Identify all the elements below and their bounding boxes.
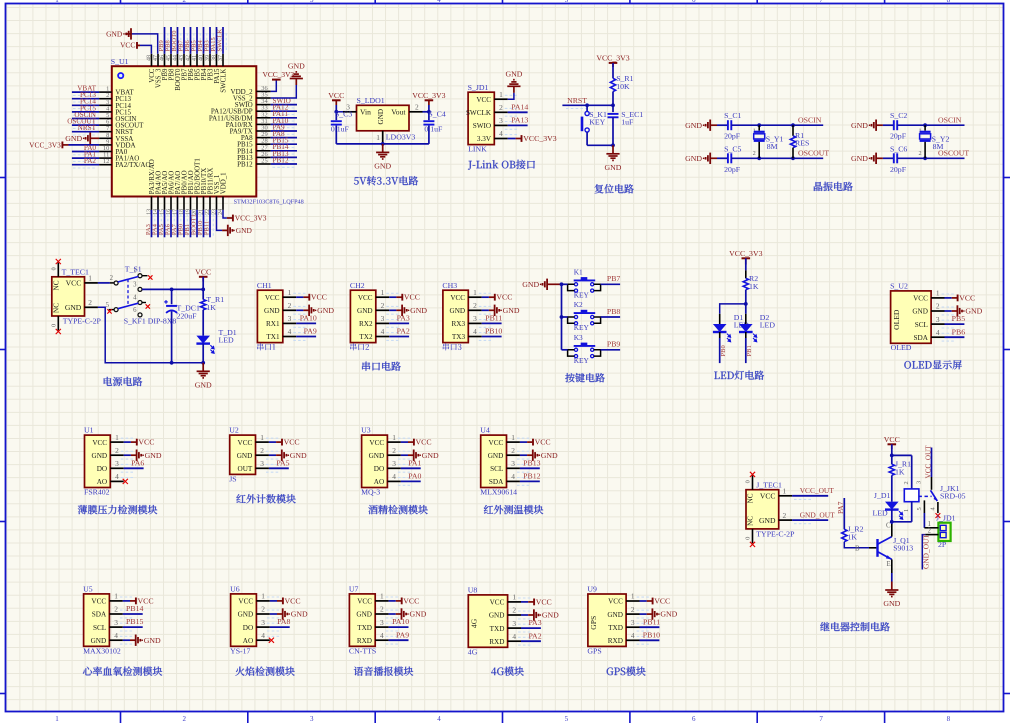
capacitor S_C5 20pF xyxy=(717,157,728,159)
svg-text:0: 0 xyxy=(51,324,58,327)
svg-text:4: 4 xyxy=(115,472,119,481)
svg-text:U4: U4 xyxy=(480,426,490,435)
svg-text:TX3: TX3 xyxy=(452,333,466,341)
wire Vout to VCC_3V3 and C4 xyxy=(423,111,429,113)
svg-text:LINK: LINK xyxy=(468,144,487,153)
svg-text:1: 1 xyxy=(55,0,59,4)
svg-text:OUT: OUT xyxy=(238,465,253,473)
wire below D2 + net PB1 xyxy=(745,332,747,338)
wire S_JD1 pin4 to VCC_3V3 xyxy=(508,138,516,140)
svg-text:VCC_3V3: VCC_3V3 xyxy=(235,214,267,223)
svg-text:U6: U6 xyxy=(230,585,240,594)
connector J_TEC1 body xyxy=(746,490,779,529)
svg-text:PB0: PB0 xyxy=(720,345,727,356)
svg-text:4: 4 xyxy=(114,631,118,640)
wire + net PB11 xyxy=(209,210,211,237)
svg-text:FSR402: FSR402 xyxy=(84,488,110,497)
wire + net PA12 xyxy=(271,110,297,112)
wire + net PA4 xyxy=(157,210,159,237)
svg-text:TX2: TX2 xyxy=(359,333,373,341)
designator 串口2 xyxy=(350,343,356,350)
wire + net PB14 xyxy=(271,150,297,152)
wire + net PA0 at U3 pin 4 xyxy=(401,480,421,482)
svg-text:VCC: VCC xyxy=(654,597,670,606)
svg-text:VCC: VCC xyxy=(369,439,384,447)
wire + net SWIO xyxy=(271,104,297,106)
svg-text:PA3: PA3 xyxy=(528,618,541,627)
svg-text:2: 2 xyxy=(512,606,516,615)
svg-text:PA10: PA10 xyxy=(392,617,409,626)
wire K1 to bus xyxy=(562,283,568,285)
wire + net VCC_OUT xyxy=(792,495,828,497)
power GND at U9 pin 2 xyxy=(640,613,647,615)
svg-text:4: 4 xyxy=(437,0,441,4)
svg-text:1: 1 xyxy=(88,274,92,283)
power VCC_3V3 at S_JD1 pin4 xyxy=(516,138,522,140)
svg-text:3: 3 xyxy=(114,618,118,627)
svg-text:VCC: VCC xyxy=(884,435,900,444)
svg-text:1: 1 xyxy=(392,433,396,442)
U8 body xyxy=(468,595,507,647)
wire LED to bottom rail xyxy=(202,344,204,363)
power GND below Q1 xyxy=(891,582,893,591)
svg-text:VCC: VCC xyxy=(138,438,154,447)
wire VCC node xyxy=(891,444,893,455)
svg-text:20pF: 20pF xyxy=(890,165,907,174)
svg-text:AO: AO xyxy=(374,478,384,486)
power VCC at U5 pin 1 xyxy=(123,600,130,602)
wire + net BOOT1 xyxy=(196,210,198,237)
power VCC at U9 pin 1 xyxy=(640,600,647,602)
svg-text:VCC_3V3: VCC_3V3 xyxy=(729,249,762,258)
svg-text:VCC: VCC xyxy=(311,293,327,302)
wire + net PB15 xyxy=(271,143,297,145)
svg-text:Vout: Vout xyxy=(391,108,406,117)
svg-text:0: 0 xyxy=(51,267,58,270)
svg-text:1: 1 xyxy=(381,288,385,297)
wire K3 to net PB9 xyxy=(601,349,621,351)
power GND at U5 pin 4 xyxy=(123,639,130,641)
svg-text:43: 43 xyxy=(179,55,185,61)
switch T_S1 poles xyxy=(110,282,114,284)
svg-text:PA2: PA2 xyxy=(397,327,410,336)
svg-text:5: 5 xyxy=(106,302,110,309)
svg-text:B: B xyxy=(855,545,860,552)
wire + net PB13 xyxy=(271,156,297,158)
svg-text:VCC: VCC xyxy=(195,267,211,276)
wire down to D2 xyxy=(745,304,747,314)
wire + net PA8 xyxy=(271,137,297,139)
svg-text:2: 2 xyxy=(261,605,265,614)
capacitor S_C3 0.1uF xyxy=(331,120,342,122)
svg-text:PB6: PB6 xyxy=(952,327,966,336)
svg-text:VCC: VCC xyxy=(536,597,552,606)
svg-text:1: 1 xyxy=(376,133,380,142)
svg-text:0: 0 xyxy=(745,537,752,540)
S_U2 body xyxy=(891,291,932,343)
power GND above S_JD1 xyxy=(513,86,515,93)
svg-text:VCC: VCC xyxy=(285,596,301,605)
power VCC above C3 xyxy=(332,99,341,101)
power VCC top-left of U1 xyxy=(137,44,140,46)
J_JD1 pin 2 xyxy=(925,534,938,536)
wire TEC1 VCC to switch xyxy=(98,282,110,284)
svg-text:S_C3: S_C3 xyxy=(335,110,352,119)
svg-text:J_TEC1: J_TEC1 xyxy=(756,481,782,490)
svg-text:GND: GND xyxy=(377,109,385,125)
T_S1 lever arms xyxy=(118,277,139,283)
caption serial circuit xyxy=(362,362,370,371)
power VCC at U4 pin 1 xyxy=(520,441,527,443)
transistor J_Q1 S9013 xyxy=(869,547,876,549)
svg-text:PB12: PB12 xyxy=(237,161,253,169)
no-connect marks on T_S1 xyxy=(142,275,148,277)
svg-text:CH1: CH1 xyxy=(257,281,272,290)
svg-text:S_U1: S_U1 xyxy=(111,57,129,66)
svg-text:GND: GND xyxy=(851,121,868,130)
svg-text:2: 2 xyxy=(782,511,786,520)
svg-text:1: 1 xyxy=(380,592,384,601)
CH3 body xyxy=(443,290,468,342)
svg-text:GND: GND xyxy=(422,451,439,460)
svg-text:4: 4 xyxy=(381,327,385,336)
svg-text:S_C2: S_C2 xyxy=(890,111,907,120)
svg-text:SWIO: SWIO xyxy=(473,122,491,130)
branch wire to D1 xyxy=(720,304,746,314)
svg-text:3: 3 xyxy=(473,314,477,323)
svg-text:MQ-3: MQ-3 xyxy=(361,488,380,497)
wire + net PB12 at U4 pin 4 xyxy=(520,480,540,482)
svg-text:4: 4 xyxy=(631,631,635,640)
svg-text:S_KF1 DIP-8X8: S_KF1 DIP-8X8 xyxy=(124,317,177,326)
U1 body xyxy=(85,435,111,487)
svg-text:GND: GND xyxy=(238,611,254,619)
svg-text:3.3V: 3.3V xyxy=(477,135,492,143)
relay J_JK1 coil box xyxy=(904,489,919,502)
resistor J_R1 1K xyxy=(889,464,894,475)
wire + net PB6 at S_U2 pin 4 xyxy=(945,336,965,338)
wire J_D1 to collector node xyxy=(891,510,893,522)
svg-text:U5: U5 xyxy=(83,585,93,594)
svg-text:GPS: GPS xyxy=(587,647,601,656)
svg-text:5: 5 xyxy=(565,0,569,4)
svg-text:VCC: VCC xyxy=(357,598,372,606)
svg-text:PB10: PB10 xyxy=(485,327,502,336)
wire + net SWCLK xyxy=(222,27,224,54)
svg-text:GND: GND xyxy=(883,599,900,608)
svg-text:SWCLK: SWCLK xyxy=(217,28,224,51)
resistor T_R1 1K xyxy=(201,300,206,310)
wire K1 to net PB7 xyxy=(601,283,621,285)
svg-text:MAX30102: MAX30102 xyxy=(83,647,121,656)
resistor S_R1 10K xyxy=(610,78,615,91)
svg-text:2: 2 xyxy=(114,605,118,614)
svg-text:3: 3 xyxy=(310,0,314,4)
wire + net PA2 xyxy=(72,164,99,166)
svg-text:2: 2 xyxy=(88,298,92,307)
svg-text:GND: GND xyxy=(607,611,623,619)
svg-text:GND: GND xyxy=(489,612,505,620)
wire VSS_1 to GND xyxy=(217,210,223,231)
wire + net PB11 at U9 pin 3 xyxy=(640,626,660,628)
wire J_R1 to LED J_D1 xyxy=(891,475,893,501)
svg-text:7: 7 xyxy=(819,0,823,4)
svg-text:45: 45 xyxy=(166,55,172,61)
svg-text:PA2/TX/AO: PA2/TX/AO xyxy=(115,161,150,169)
svg-text:1: 1 xyxy=(288,288,292,297)
svg-text:4: 4 xyxy=(437,715,441,723)
svg-text:LED: LED xyxy=(219,335,235,344)
wire C4 to bottom rail xyxy=(428,126,430,144)
J_JD1 pin 1 xyxy=(924,527,938,529)
svg-text:SDA: SDA xyxy=(92,611,107,619)
svg-text:1: 1 xyxy=(260,433,264,442)
svg-text:2: 2 xyxy=(919,150,922,157)
svg-text:LED: LED xyxy=(760,321,776,330)
power VCC at U2 pin 1 xyxy=(269,441,276,443)
wire + net OSCOUT xyxy=(72,124,99,126)
resistor R2 1K xyxy=(743,278,748,289)
svg-text:AO: AO xyxy=(243,637,253,645)
relay coil wire down xyxy=(911,455,913,489)
power GND at U7 pin 2 xyxy=(389,613,396,615)
relay dashed link xyxy=(919,495,932,497)
wire + net PB3 xyxy=(209,27,211,54)
power GND at U1 pin 8 xyxy=(90,137,99,139)
svg-text:Vin: Vin xyxy=(360,108,371,117)
svg-text:OSCIN: OSCIN xyxy=(938,116,962,125)
svg-text:E: E xyxy=(887,561,891,568)
caption GPS module xyxy=(607,668,614,676)
svg-text:6: 6 xyxy=(692,0,696,4)
wire + net PA8 at U6 pin 3 xyxy=(270,626,290,628)
svg-text:NC: NC xyxy=(747,493,755,503)
wire + net PB5 at S_U2 pin 3 xyxy=(945,323,965,325)
wire + net PB14 at U5 pin 2 xyxy=(123,613,143,615)
power GND bottom of power circuit xyxy=(202,363,204,372)
svg-text:VCC: VCC xyxy=(490,599,505,607)
wire + net PB10 at CH3 pin 4 xyxy=(482,336,502,338)
svg-text:10K: 10K xyxy=(616,82,630,91)
svg-text:GND: GND xyxy=(237,452,253,460)
svg-text:GND: GND xyxy=(106,30,123,39)
wire K2 to net PB8 xyxy=(601,316,621,318)
wire below D1 + net PB0 xyxy=(719,332,721,338)
svg-text:PA6: PA6 xyxy=(131,458,144,467)
J_TEC1 top NC stub xyxy=(752,476,754,490)
resistor R1 RES between OSCIN/OSCOUT xyxy=(791,123,795,127)
svg-text:41: 41 xyxy=(192,55,198,61)
svg-text:PB12: PB12 xyxy=(523,472,540,481)
svg-text:YS-17: YS-17 xyxy=(230,647,250,656)
svg-text:3: 3 xyxy=(381,314,385,323)
svg-text:VCC: VCC xyxy=(238,439,253,447)
CH1 body xyxy=(257,290,282,342)
svg-text:GND: GND xyxy=(542,611,559,620)
svg-text:TYPE-C-2P: TYPE-C-2P xyxy=(756,529,795,538)
svg-text:PA10: PA10 xyxy=(300,314,317,323)
power VCC_3V3 top of reset circuit xyxy=(609,62,618,64)
svg-text:J_JD1: J_JD1 xyxy=(936,514,956,523)
svg-text:S_JD1: S_JD1 xyxy=(468,83,489,92)
svg-text:GND: GND xyxy=(759,516,776,525)
power GND below U1 xyxy=(222,229,228,231)
wire T_DC1 to bottom rail xyxy=(171,311,173,362)
svg-text:VCC: VCC xyxy=(416,438,432,447)
svg-text:7: 7 xyxy=(819,715,823,723)
svg-text:VCC: VCC xyxy=(358,294,373,302)
svg-text:S_U2: S_U2 xyxy=(890,282,908,291)
svg-text:SRD-05: SRD-05 xyxy=(940,491,966,500)
svg-text:NC: NC xyxy=(53,303,61,313)
svg-text:1: 1 xyxy=(782,487,786,496)
caption relay control circuit xyxy=(820,622,829,631)
power VCC at U6 pin 1 xyxy=(270,600,277,602)
svg-text:2: 2 xyxy=(380,605,384,614)
wire down to C3 xyxy=(335,112,337,120)
caption J-Link OB xyxy=(468,161,472,170)
wire + net BOOT0 xyxy=(177,27,179,54)
svg-text:2: 2 xyxy=(903,481,910,484)
svg-text:C: C xyxy=(886,523,891,530)
switch T_S1 contacts xyxy=(138,274,142,278)
wire + net PA14 at S_JD1 pin 2 xyxy=(508,111,528,113)
svg-text:GND: GND xyxy=(660,610,677,619)
LDO S_LDO1 body xyxy=(357,105,410,131)
caption film pressure module xyxy=(78,505,87,514)
wire + net PB0 xyxy=(183,210,185,237)
wire K3 to bus xyxy=(562,349,568,351)
svg-text:S_C6: S_C6 xyxy=(890,144,907,153)
svg-text:GND: GND xyxy=(65,134,82,143)
svg-text:3: 3 xyxy=(260,459,264,468)
svg-text:2: 2 xyxy=(631,605,635,614)
svg-text:3: 3 xyxy=(380,618,384,627)
svg-text:VCC: VCC xyxy=(959,293,975,302)
wire S_R1 to node xyxy=(612,92,614,106)
key bus vertical wire xyxy=(561,284,563,350)
svg-text:VCC: VCC xyxy=(489,439,504,447)
wire T_R1 to LED xyxy=(202,310,204,336)
svg-text:PA2: PA2 xyxy=(528,631,541,640)
svg-text:PA9: PA9 xyxy=(304,327,317,336)
svg-text:1: 1 xyxy=(55,715,59,723)
wire + net GND_OUT xyxy=(792,519,828,521)
svg-text:GND: GND xyxy=(357,307,373,315)
wire Vin to VCC and C3 xyxy=(336,111,343,113)
svg-text:8M: 8M xyxy=(767,142,778,151)
wire + net PB12 xyxy=(271,163,297,165)
svg-text:KEY: KEY xyxy=(574,323,590,332)
designator 串口3 xyxy=(443,343,449,350)
svg-text:4: 4 xyxy=(392,472,396,481)
svg-text:GND: GND xyxy=(965,307,982,316)
svg-text:VCC_3V3: VCC_3V3 xyxy=(412,91,445,100)
crystal Y2 8M xyxy=(924,125,926,130)
svg-text:VCC: VCC xyxy=(404,293,420,302)
caption reset circuit xyxy=(595,184,604,193)
power VCC_3V3 above U1 right xyxy=(272,79,281,81)
svg-text:VCC: VCC xyxy=(91,598,106,606)
svg-text:1: 1 xyxy=(512,593,516,602)
svg-text:VCC: VCC xyxy=(92,439,107,447)
svg-text:2: 2 xyxy=(260,446,264,455)
svg-text:U3: U3 xyxy=(361,426,371,435)
svg-text:VCC: VCC xyxy=(760,492,776,501)
svg-text:GND: GND xyxy=(410,610,427,619)
wire down to C4 xyxy=(428,112,430,120)
svg-text:DO: DO xyxy=(243,624,253,632)
power GND at U3 pin 2 xyxy=(401,454,408,456)
svg-text:LED: LED xyxy=(873,508,889,517)
wire to OSCIN xyxy=(897,124,964,126)
svg-text:2: 2 xyxy=(183,715,187,723)
svg-text:VCC: VCC xyxy=(284,438,300,447)
power VCC_3V3 top of LED circuit xyxy=(742,257,751,259)
svg-text:SWCLK: SWCLK xyxy=(466,109,492,117)
svg-text:GND: GND xyxy=(410,306,427,315)
svg-text:GND: GND xyxy=(144,636,161,645)
svg-text:2: 2 xyxy=(753,150,756,157)
svg-text:3: 3 xyxy=(288,314,292,323)
svg-text:U1: U1 xyxy=(84,426,94,435)
svg-text:RXD: RXD xyxy=(608,637,623,645)
svg-text:MLX90614: MLX90614 xyxy=(480,488,517,497)
svg-text:S_C5: S_C5 xyxy=(724,144,741,153)
wire + net PB1 xyxy=(190,210,192,237)
crystal Y1 8M xyxy=(758,125,760,130)
svg-text:PA14: PA14 xyxy=(511,102,528,111)
LED T_D1 xyxy=(196,336,210,344)
svg-text:LDO3V3: LDO3V3 xyxy=(386,133,416,142)
svg-text:PB15: PB15 xyxy=(126,617,143,626)
svg-text:GPS: GPS xyxy=(589,616,598,630)
svg-text:4: 4 xyxy=(511,472,515,481)
wire C3 to bottom rail xyxy=(335,126,337,144)
caption power circuit xyxy=(104,377,112,386)
svg-text:K3: K3 xyxy=(574,333,583,342)
power VCC at U7 pin 1 xyxy=(389,600,396,602)
wire + net PC13 xyxy=(72,98,99,100)
U5 body xyxy=(84,594,110,646)
svg-text:3: 3 xyxy=(916,481,923,484)
svg-text:SCL: SCL xyxy=(93,624,106,632)
svg-text:1: 1 xyxy=(903,509,910,512)
svg-text:TX1: TX1 xyxy=(266,333,280,341)
wire to OSCOUT xyxy=(897,157,964,159)
wire + net OSCIN xyxy=(72,118,99,120)
svg-text:48: 48 xyxy=(146,55,152,61)
svg-text:25: 25 xyxy=(261,158,267,165)
svg-text:46: 46 xyxy=(159,55,165,61)
svg-text:RXD: RXD xyxy=(357,637,372,645)
svg-text:6: 6 xyxy=(133,307,137,314)
power VCC at U1 pin 1 xyxy=(124,441,131,443)
svg-text:GND: GND xyxy=(317,306,334,315)
svg-text:44: 44 xyxy=(172,55,178,61)
svg-text:PB13: PB13 xyxy=(523,458,540,467)
svg-text:3: 3 xyxy=(511,459,515,468)
U7 body xyxy=(349,594,375,646)
svg-text:RX2: RX2 xyxy=(359,320,373,328)
wire node to T_R1 xyxy=(202,289,204,299)
wire + net NRST xyxy=(72,131,99,133)
wire S_JD1 pin1 to GND xyxy=(508,93,514,99)
wire pin5 down to J_JD1 pin1 xyxy=(923,513,925,528)
svg-text:GND: GND xyxy=(541,451,558,460)
wire VCC to node xyxy=(202,277,204,290)
svg-text:VCC: VCC xyxy=(238,598,253,606)
